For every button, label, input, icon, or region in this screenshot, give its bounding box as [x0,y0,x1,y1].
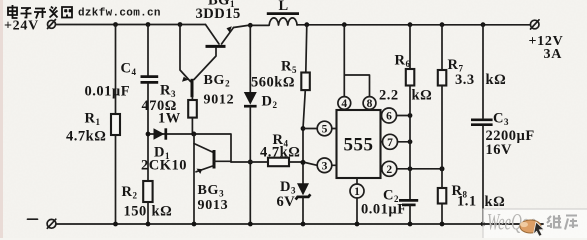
resistor R7 [438,25,447,188]
resistor R8 [438,188,447,224]
svg-text:0.01µF: 0.01µF [85,84,131,100]
node minus terminal [28,219,56,228]
watermark WeeQoo box [483,209,587,239]
svg-text:560kΩ: 560kΩ [251,75,295,91]
watermark WeeQoo text [487,210,537,235]
transistor Q BG3 9013 [194,134,231,224]
wire 555 pin3 link [231,162,317,165]
svg-text:4: 4 [341,98,347,110]
svg-text:kΩ: kΩ [412,88,433,104]
svg-text:8: 8 [367,98,373,110]
watermark mouse logo [520,220,543,233]
svg-text:150: 150 [124,204,147,220]
capacitor C2 [399,200,418,224]
svg-text:kΩ: kΩ [485,194,506,210]
zener D3 6V [296,183,311,224]
resistor R6 [406,25,415,199]
svg-text:0.01µF: 0.01µF [361,202,407,218]
svg-text:9012: 9012 [204,93,235,108]
pin 2 [381,161,445,176]
watermark weiku cjk [547,215,578,230]
transistor Q BG2 9012 [180,25,192,98]
pin 5 [317,121,336,136]
svg-text:4.7kΩ: 4.7kΩ [66,129,106,145]
resistor R4 [268,158,289,167]
op-amp U1 555 timer box [337,110,381,178]
pin 6 [381,108,413,123]
capacitor C3 electrolytic [471,25,493,224]
svg-text:3: 3 [322,161,328,173]
wire top +24V rail [56,22,206,27]
capacitor C4 [141,25,159,135]
watermark cursor arrow [533,222,544,236]
svg-text:7: 7 [387,137,393,149]
svg-text:3DD15: 3DD15 [196,6,241,22]
svg-text:dzkfw.com.cn: dzkfw.com.cn [78,8,161,20]
svg-text:16V: 16V [486,142,513,158]
pin 1 [350,178,364,224]
svg-text:1.1: 1.1 [457,194,477,210]
wire bottom ground rail [56,222,543,227]
svg-text:3.3: 3.3 [455,72,475,88]
svg-text:4.7kΩ: 4.7kΩ [260,145,300,161]
svg-text:6V: 6V [277,194,296,210]
node +12V output terminal [530,20,539,29]
svg-text:kΩ: kΩ [152,204,173,220]
svg-text:L: L [279,0,289,14]
svg-text:9013: 9013 [198,198,229,213]
pin 4 [338,25,351,110]
inductor L [267,14,299,25]
wire 555 pin5 link [303,128,317,130]
pin 3 [317,158,336,173]
transistor Q BG1 3DD15 [194,25,234,80]
svg-text:3A: 3A [544,47,563,62]
svg-text:1W: 1W [158,111,181,127]
resistor R1 [111,25,120,225]
node +24V input terminal [48,20,56,29]
diode D2 [244,25,257,224]
svg-text:kΩ: kΩ [486,72,507,88]
pin 8 [344,75,376,110]
svg-text:555: 555 [344,135,374,156]
svg-text:1: 1 [354,186,360,198]
resistor R3 [188,97,197,134]
svg-text:5: 5 [322,124,328,136]
pin 7 [381,134,413,149]
svg-text:+24V: +24V [4,19,39,34]
resistor R2 [143,134,152,224]
diode D1 2CK10 [146,128,231,162]
svg-text:2CK10: 2CK10 [141,158,187,174]
wire ground rail overlay in watermark [483,223,543,225]
svg-text:6: 6 [386,111,392,123]
wire output rail to +12V [297,22,530,27]
svg-text:2: 2 [386,164,392,176]
svg-text:2.2: 2.2 [379,88,399,104]
wire BG1 emitter to inductor [234,23,270,28]
resistor R5 [301,25,310,184]
watermark dzkfw banner text [8,5,72,19]
